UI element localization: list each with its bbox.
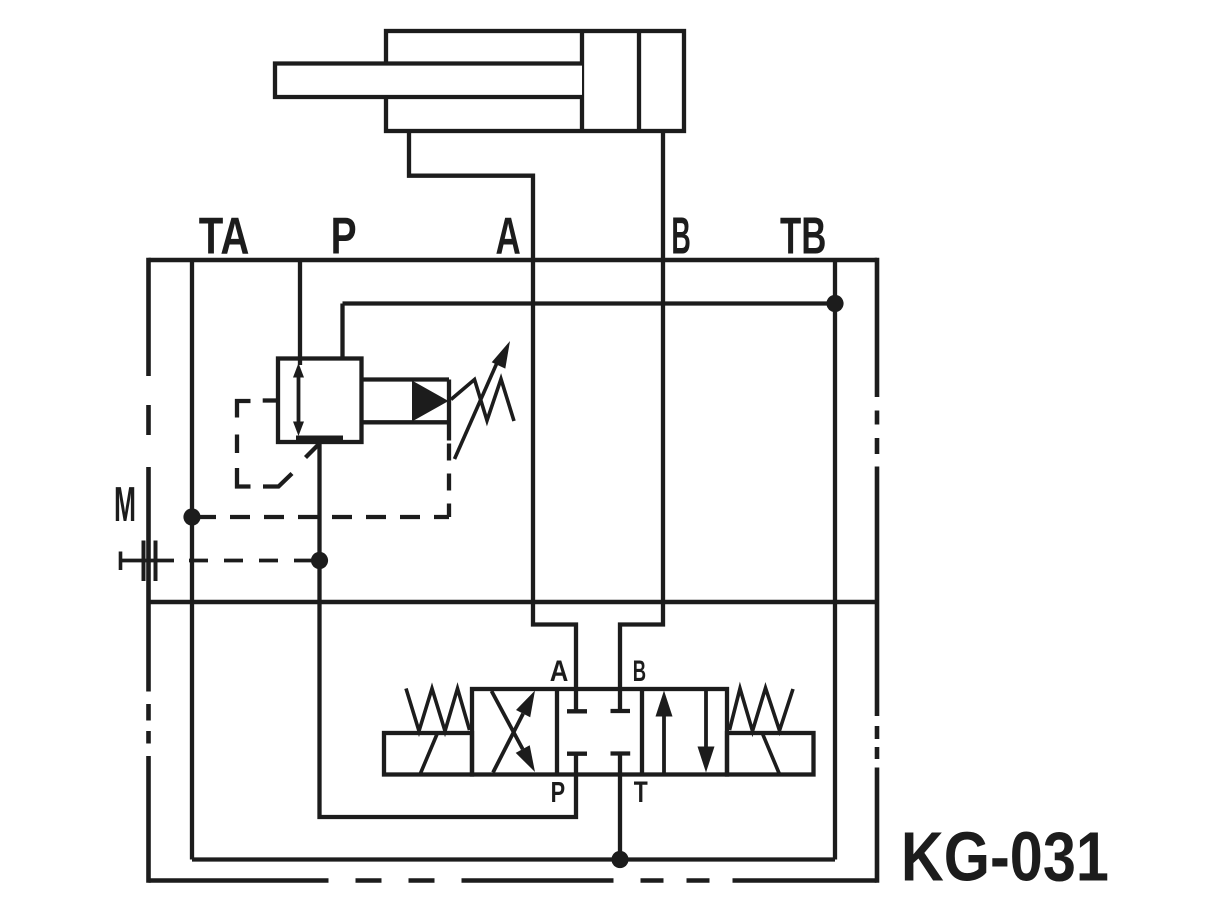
- DCV port T stub: [611, 754, 631, 775]
- svg-text:P: P: [331, 208, 357, 266]
- svg-text:T: T: [634, 776, 648, 809]
- manifold block bottom edge: [149, 600, 878, 605]
- svg-text:TA: TA: [199, 208, 250, 266]
- manifold block left edge (chain): [146, 258, 151, 883]
- relief valve seat bar: [296, 435, 343, 440]
- wire TB: [833, 260, 837, 860]
- relief valve left pilot stub: [263, 398, 278, 402]
- DCV right square up arrow: [662, 716, 666, 774]
- wire tank bottom: [192, 857, 835, 861]
- wire cylinder port A: [409, 131, 576, 689]
- relief valve body: [278, 359, 362, 443]
- svg-text:B: B: [633, 655, 646, 688]
- DCV left square crossed arrow 1: [493, 714, 523, 773]
- relief adjustment arrow: [455, 356, 501, 459]
- DCV left solenoid: [384, 733, 472, 775]
- manifold block top edge: [149, 258, 878, 263]
- DCV port B stub: [611, 689, 631, 711]
- DCV right solenoid: [727, 733, 814, 775]
- DCV right square down arrow: [704, 689, 708, 747]
- DCV port P stub: [567, 754, 587, 775]
- relief valve spool arrow (double headed): [297, 372, 301, 427]
- wire P supply: [298, 260, 302, 365]
- wire cylinder port B: [620, 131, 663, 689]
- relief solenoid pilot drop (dashed): [447, 444, 451, 518]
- junction dot gauge/P: [311, 552, 328, 569]
- DCV left spring: [406, 689, 470, 732]
- junction dot TA/pilot: [183, 508, 200, 525]
- DCV right spring: [730, 688, 794, 731]
- pilot dashed line TA to solenoid: [196, 515, 449, 519]
- relief valve solenoid: [362, 380, 450, 441]
- manifold block right edge (chain): [875, 258, 880, 883]
- junction dot TB/relief: [826, 295, 843, 312]
- cylinder piston: [582, 33, 639, 129]
- wire TA: [190, 260, 194, 860]
- pilot dashed box: [237, 401, 320, 487]
- svg-text:KG-031: KG-031: [901, 818, 1109, 896]
- relief valve drain / P line to DCV: [320, 442, 577, 817]
- svg-text:A: A: [496, 208, 521, 266]
- DCV left square crossed arrow 2: [492, 691, 523, 749]
- cylinder rod: [275, 64, 582, 98]
- junction dot T/tank: [611, 851, 628, 868]
- svg-text:A: A: [550, 655, 569, 688]
- wire relief to TB: [343, 304, 836, 360]
- cylinder body: [386, 31, 684, 131]
- svg-text:TB: TB: [780, 208, 826, 266]
- svg-text:P: P: [551, 777, 566, 809]
- gauge dashed line to P: [189, 559, 313, 563]
- svg-text:M: M: [114, 477, 136, 532]
- relief valve spring: [451, 379, 514, 421]
- svg-text:B: B: [671, 208, 690, 266]
- wire DCV T to tank: [618, 775, 622, 860]
- DCV port A stub: [567, 689, 587, 711]
- directional valve body: [472, 689, 727, 775]
- gauge port M symbol: [119, 559, 174, 563]
- subplate bottom chain line: [149, 878, 878, 883]
